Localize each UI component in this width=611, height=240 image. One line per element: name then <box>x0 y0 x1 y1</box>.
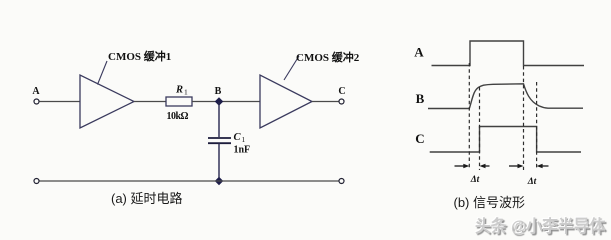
svg-text:CMOS 缓冲1: CMOS 缓冲1 <box>108 49 171 63</box>
svg-text:A: A <box>414 45 424 60</box>
terminal A <box>34 99 39 104</box>
svg-text:Δt: Δt <box>470 175 480 185</box>
junction dot on bottom rail <box>215 177 223 185</box>
svg-text:Δt: Δt <box>527 177 537 187</box>
wire R1 to buffer2 <box>192 101 260 103</box>
svg-text:1: 1 <box>242 135 246 144</box>
svg-text:(a) 延时电路: (a) 延时电路 <box>111 191 183 206</box>
svg-text:B: B <box>416 91 425 106</box>
svg-text:(b) 信号波形: (b) 信号波形 <box>454 195 526 210</box>
svg-text:C: C <box>415 131 424 146</box>
dashed line at C rising edge <box>479 87 481 170</box>
resistor R1 <box>166 97 192 106</box>
op-amp buffer U1 <box>80 75 134 128</box>
svg-text:1: 1 <box>184 88 188 97</box>
leader line to CMOS buffer 2 label <box>284 56 299 80</box>
svg-text:C: C <box>234 132 242 143</box>
dashed line at A falling edge <box>523 66 525 170</box>
wire buffer1 to R1 <box>134 101 166 103</box>
wire C1 down to bottom rail <box>218 143 220 181</box>
bottom-right terminal <box>339 179 344 184</box>
waveform C trace <box>430 127 581 153</box>
svg-text:B: B <box>215 86 222 97</box>
leader line to CMOS buffer 1 label <box>98 61 108 85</box>
wire buffer2 to terminal C <box>312 101 339 103</box>
wire node B down to C1 <box>218 102 220 138</box>
bottom-left terminal <box>34 179 39 184</box>
svg-text:A: A <box>32 86 40 97</box>
capacitor C1 top plate <box>208 137 231 139</box>
bottom rail wire <box>39 180 338 182</box>
waveform B trace (RC charge/discharge) <box>428 84 583 109</box>
watermark 头条 @小李半导体 <box>475 212 605 237</box>
capacitor C1 bottom plate <box>208 142 231 144</box>
delta-t arrow left-in (second) <box>509 165 521 167</box>
delta-t arrow left-in (first) <box>455 164 549 168</box>
svg-text:C: C <box>338 86 345 97</box>
node B junction dot <box>215 97 223 105</box>
wire A to buffer1 <box>39 101 80 103</box>
op-amp buffer U2 <box>260 75 312 128</box>
svg-text:CMOS 缓冲2: CMOS 缓冲2 <box>296 50 360 64</box>
dashed line at A rising edge <box>468 63 470 170</box>
svg-text:R: R <box>175 85 183 96</box>
waveform A trace <box>432 41 585 66</box>
delta-t arrow right-in (second) <box>539 165 548 167</box>
dashed line at C falling edge <box>536 82 538 170</box>
svg-text:10kΩ: 10kΩ <box>167 111 189 122</box>
svg-text:1nF: 1nF <box>234 145 251 156</box>
terminal C <box>339 99 344 104</box>
delta-t arrow right-in (first) <box>482 165 489 167</box>
